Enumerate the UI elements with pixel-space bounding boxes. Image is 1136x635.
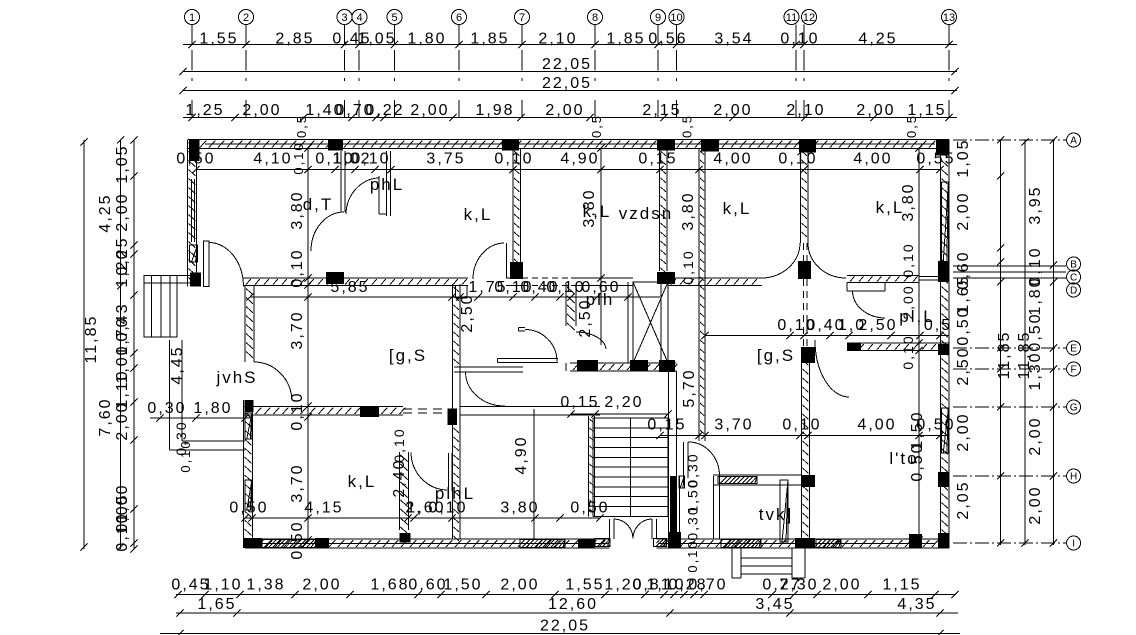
svg-text:0,50: 0,50 [570,500,609,517]
svg-text:0,15: 0,15 [638,151,677,168]
svg-text:12,60: 12,60 [548,596,598,613]
svg-text:I: I [1072,539,1075,550]
svg-text:3,80: 3,80 [680,191,697,230]
svg-text:2,40: 2,40 [391,458,408,497]
svg-text:A: A [1070,136,1077,147]
svg-text:7: 7 [519,12,525,24]
svg-text:3,45: 3,45 [755,596,794,613]
svg-text:0,10: 0,10 [391,427,407,462]
svg-text:1,05: 1,05 [114,144,131,183]
svg-text:D: D [1070,286,1077,297]
svg-text:d,T: d,T [303,195,334,214]
svg-text:4,25: 4,25 [97,193,114,232]
svg-text:2,10: 2,10 [538,31,577,48]
svg-text:0,5: 0,5 [680,114,695,138]
svg-text:[g,S: [g,S [389,346,427,365]
svg-text:1,98: 1,98 [475,102,514,119]
svg-text:0,10: 0,10 [900,242,916,277]
svg-text:0,10: 0,10 [289,391,306,430]
svg-text:0,30: 0,30 [685,505,701,540]
svg-text:k,L: k,L [876,198,905,217]
svg-text:0,50: 0,50 [176,151,215,168]
svg-text:2,50: 2,50 [955,346,972,385]
svg-text:4,15: 4,15 [304,500,343,517]
svg-text:2,00: 2,00 [302,577,341,594]
svg-text:9: 9 [655,12,661,24]
svg-text:l'to: l'to [889,449,918,468]
svg-text:13: 13 [943,12,955,24]
svg-text:G: G [1070,403,1078,414]
svg-text:0,10: 0,10 [351,151,390,168]
svg-text:10: 10 [670,12,682,24]
svg-text:vzdsn: vzdsn [619,204,673,223]
svg-text:[g,S: [g,S [757,346,795,365]
svg-text:3,80: 3,80 [500,500,539,517]
svg-text:5: 5 [391,12,397,24]
svg-text:2,20: 2,20 [604,394,643,411]
svg-text:1,25: 1,25 [185,102,224,119]
svg-text:4,00: 4,00 [857,417,896,434]
svg-text:2,00: 2,00 [500,577,539,594]
svg-text:4,90: 4,90 [560,151,599,168]
svg-text:k,L: k,L [723,199,752,218]
svg-text:0,55: 0,55 [916,151,955,168]
svg-text:0,70: 0,70 [688,577,727,594]
svg-text:2,00: 2,00 [1027,485,1044,524]
svg-text:4,25: 4,25 [858,31,897,48]
svg-text:E: E [1070,344,1077,355]
svg-text:1,05: 1,05 [955,138,972,177]
svg-text:0,10: 0,10 [685,539,700,572]
svg-text:2,05: 2,05 [955,480,972,519]
svg-text:2,00: 2,00 [822,577,861,594]
svg-text:2,85: 2,85 [275,31,314,48]
svg-text:0,50: 0,50 [229,500,268,517]
svg-text:22,05: 22,05 [542,75,592,92]
svg-text:4,90: 4,90 [513,435,530,474]
svg-text:0,10: 0,10 [900,334,916,369]
svg-text:0,15: 0,15 [560,394,599,411]
svg-text:pl,L: pl,L [899,307,934,326]
svg-text:2,50: 2,50 [459,293,476,332]
svg-text:11,85: 11,85 [83,315,100,364]
svg-text:3,70: 3,70 [714,417,753,434]
svg-text:2,00: 2,00 [955,412,972,451]
svg-text:0,56: 0,56 [648,31,687,48]
svg-text:2,15: 2,15 [642,102,681,119]
svg-text:0,5: 0,5 [294,114,309,138]
svg-text:6: 6 [456,12,462,24]
svg-text:1,50: 1,50 [443,577,482,594]
svg-text:1,80: 1,80 [193,400,232,417]
svg-text:0,10: 0,10 [289,248,306,287]
svg-text:0,5: 0,5 [589,114,604,138]
svg-text:1,65: 1,65 [197,596,236,613]
svg-text:0,10: 0,10 [114,512,131,551]
svg-text:1,38: 1,38 [246,577,285,594]
svg-text:1: 1 [189,12,195,24]
svg-text:4,45: 4,45 [169,345,186,384]
svg-text:2,00: 2,00 [410,102,449,119]
svg-text:0,5: 0,5 [904,114,919,138]
svg-text:0,10: 0,10 [494,151,533,168]
svg-text:F: F [1071,365,1077,376]
svg-text:12: 12 [803,12,815,24]
svg-text:1,10: 1,10 [203,577,242,594]
svg-text:0,10: 0,10 [782,417,821,434]
svg-text:4: 4 [356,12,362,24]
svg-text:0,60: 0,60 [408,577,447,594]
svg-text:3,95: 3,95 [1027,185,1044,224]
svg-text:1,55: 1,55 [565,577,604,594]
svg-text:1,68: 1,68 [370,577,409,594]
svg-text:1,30: 1,30 [1027,351,1044,390]
svg-text:phL: phL [370,175,404,194]
svg-text:3,75: 3,75 [426,151,465,168]
svg-text:7,30: 7,30 [779,577,818,594]
svg-text:2,00: 2,00 [955,191,972,230]
svg-text:1,55: 1,55 [199,31,238,48]
svg-text:3,70: 3,70 [289,463,306,502]
svg-text:0,10: 0,10 [178,439,193,472]
svg-text:0,10: 0,10 [780,31,819,48]
svg-text:3,54: 3,54 [714,31,753,48]
svg-text:2,00: 2,00 [713,102,752,119]
svg-text:0,30: 0,30 [147,400,186,417]
svg-text:5,70: 5,70 [681,368,698,407]
svg-text:4,00: 4,00 [713,151,752,168]
svg-text:B: B [1070,260,1077,271]
svg-text:2,00: 2,00 [545,102,584,119]
svg-text:tvk]: tvk] [759,505,793,524]
svg-text:2,00: 2,00 [1027,416,1044,455]
svg-text:8: 8 [592,12,598,24]
svg-text:plh: plh [586,290,615,309]
svg-text:1,05: 1,05 [357,31,396,48]
svg-text:0,50: 0,50 [916,417,955,434]
svg-text:0,10: 0,10 [546,279,585,296]
svg-text:0,50: 0,50 [1027,312,1044,351]
svg-text:0,50: 0,50 [955,306,972,345]
svg-text:1,85: 1,85 [470,31,509,48]
svg-text:2,00: 2,00 [114,192,131,231]
svg-text:4,35: 4,35 [897,596,936,613]
svg-text:0,10: 0,10 [680,249,696,284]
svg-text:H: H [1070,472,1077,483]
svg-text:1,85: 1,85 [606,31,645,48]
svg-text:2,00: 2,00 [242,102,281,119]
svg-text:1,80: 1,80 [407,31,446,48]
svg-text:plhL: plhL [435,484,475,503]
svg-text:2: 2 [243,12,249,24]
svg-text:3,70: 3,70 [289,310,306,349]
svg-text:C: C [1070,273,1077,284]
svg-text:11: 11 [786,12,797,24]
svg-text:1,20: 1,20 [114,248,131,287]
svg-text:0,15: 0,15 [647,417,686,434]
svg-text:jvhS: jvhS [215,368,257,387]
svg-text:4,00: 4,00 [853,151,892,168]
svg-text:k,L: k,L [583,202,612,221]
svg-text:4,10: 4,10 [253,151,292,168]
svg-text:1,80: 1,80 [1027,276,1044,315]
svg-text:1,15: 1,15 [882,577,921,594]
svg-text:5,85: 5,85 [330,279,369,296]
svg-text:2,00: 2,00 [856,102,895,119]
svg-text:0,50: 0,50 [289,520,306,559]
svg-text:7,60: 7,60 [97,397,114,436]
svg-text:k,L: k,L [348,472,377,491]
svg-text:k,L: k,L [464,205,493,224]
svg-text:2,50: 2,50 [858,317,897,334]
svg-text:3: 3 [341,12,347,24]
svg-text:2,00: 2,00 [114,401,131,440]
svg-text:22,05: 22,05 [540,618,590,635]
svg-text:11,85: 11,85 [996,331,1013,380]
svg-text:0,10: 0,10 [291,141,306,174]
svg-text:0,10: 0,10 [778,151,817,168]
svg-text:22,05: 22,05 [542,56,592,73]
